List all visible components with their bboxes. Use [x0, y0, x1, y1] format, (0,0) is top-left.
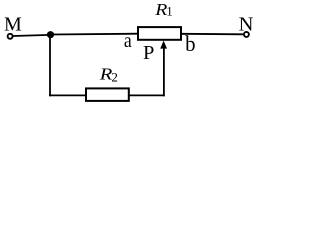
- svg-text:M: M: [4, 14, 22, 36]
- svg-text:a: a: [124, 30, 132, 52]
- resistor R1 body: [138, 27, 181, 40]
- svg-text:1: 1: [166, 4, 173, 19]
- svg-text:b: b: [185, 31, 195, 56]
- wire wiper riser: [163, 46, 165, 96]
- junction node: [47, 31, 54, 38]
- resistor R2 body: [86, 88, 129, 101]
- terminal N: [244, 32, 249, 37]
- wire M to junction: [13, 35, 50, 36]
- wire R1 end b to N: [181, 33, 243, 36]
- wire junction to R1 end a: [51, 33, 139, 36]
- svg-text:N: N: [239, 14, 254, 36]
- svg-text:2: 2: [111, 70, 118, 85]
- terminal M: [8, 34, 13, 39]
- svg-text:P: P: [143, 42, 154, 64]
- bottom wire left: [49, 94, 86, 96]
- wire junction down: [49, 35, 51, 97]
- bottom wire right: [129, 94, 165, 96]
- wiper arrow P: [160, 41, 167, 49]
